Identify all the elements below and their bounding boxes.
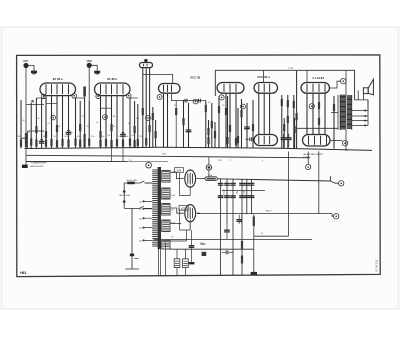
svg-text:5k: 5k [223, 105, 225, 107]
svg-text:TONABNEHMER: TONABNEHMER [31, 162, 48, 165]
tube V7 ECC82 lower envelope [254, 135, 278, 146]
tube V5 label ECC 82 a [258, 75, 271, 79]
svg-text:2n: 2n [96, 122, 98, 124]
driver stage wire with resistor at x=238 [237, 108, 239, 148]
rectifier interconnect [170, 173, 190, 241]
pilot lamp [146, 162, 152, 168]
rail label [266, 211, 272, 213]
svg-text:8-704 129: 8-704 129 [375, 259, 379, 271]
transformer secondary taps [352, 100, 368, 127]
tube V2 label EF 86 b [107, 77, 117, 81]
svg-text:EF 86 a: EF 86 a [53, 77, 63, 81]
svg-text:ECC 83: ECC 83 [190, 76, 200, 80]
output stage wire with resistor at x=284 [283, 118, 285, 149]
transformer area bus [154, 239, 312, 241]
V3 anode wire network [172, 93, 206, 102]
bias components [236, 215, 242, 224]
screen wire jog [36, 97, 46, 99]
detector diode top terminal [144, 59, 147, 62]
wire pickup terminal down [88, 68, 90, 101]
interstage pins V5 to V7 [259, 93, 270, 134]
mains switch label [119, 195, 131, 197]
wire with resistor+resistor at x=36 [35, 98, 37, 148]
output stage wire with resistor+resistor at x=288 [287, 95, 289, 149]
driver stage wire with resistor+resistor at x=208 [207, 120, 209, 148]
output stage wire with resistor at x=334 [333, 96, 335, 149]
tube V4 first half ECC82 envelope [217, 83, 244, 94]
svg-text:220: 220 [139, 228, 142, 230]
driver stage wire with resistor at x=228 [226, 96, 228, 148]
driver stage wire with resistor at x=206 [205, 101, 207, 148]
tube V1 EF86 envelope [40, 83, 76, 96]
detector pin wires down [143, 68, 150, 148]
svg-text:2 x EL84: 2 x EL84 [313, 76, 325, 80]
title H61 [20, 271, 26, 275]
wire with capacitor+resistor at x=123 [120, 96, 126, 149]
lower rail link [254, 235, 289, 237]
mains drop to ground [125, 208, 139, 269]
svg-text:ECC 82 a: ECC 82 a [258, 75, 271, 79]
cathode resistor column [251, 214, 257, 274]
component value labels [18, 102, 225, 138]
tube V1 label EF 86 a [53, 77, 63, 81]
detector aux column 2 [155, 120, 157, 148]
bias cap 2 [224, 224, 230, 239]
wire with resistor+resistor at x=135 [134, 101, 136, 148]
wire with resistor at x=31 [30, 103, 32, 148]
winding bottom wire [170, 248, 254, 250]
speaker leads [355, 90, 368, 110]
wire to output terminal T5 [330, 181, 344, 186]
wire with resistor+resistor at x=100 [99, 96, 101, 149]
wire with resistor at x=130 [129, 98, 131, 148]
wire with resistor+resistor at x=26 [25, 133, 27, 147]
svg-text:350V: 350V [244, 189, 246, 194]
chassis bus C [26, 161, 168, 163]
wire to output terminal T4 [306, 152, 311, 170]
wire pickup terminal to pad [92, 65, 97, 70]
svg-text:125: 125 [139, 209, 142, 211]
svg-text:SICH. 0,8A: SICH. 0,8A [127, 179, 138, 182]
bus tie x111 [111, 148, 113, 162]
B+ rail from rectifier [218, 176, 331, 181]
driver stage wire with resistor at x=226 [225, 93, 227, 148]
rectifier V10 cathode lead [189, 220, 195, 265]
svg-text:100k: 100k [43, 136, 47, 138]
rectifier V10 wires [170, 208, 200, 213]
svg-text:10k: 10k [87, 126, 90, 128]
wire antenna terminal to pad [29, 66, 34, 71]
svg-text:NETZSCHR.: NETZSCHR. [119, 195, 131, 197]
wire with resistor at x=138 [137, 104, 139, 148]
wire with resistor+resistor at x=46 [45, 96, 47, 149]
pickup input terminal [87, 63, 92, 68]
mid circled pin B [103, 115, 108, 120]
bus labels [129, 153, 264, 162]
secondary winding labels [171, 172, 176, 239]
wire with resistor+resistor at x=57 [56, 96, 58, 149]
svg-text:-7V: -7V [260, 233, 264, 235]
driver stage wire with resistor at x=242 [240, 99, 242, 148]
wire with resistor at x=52 [50, 96, 52, 149]
svg-text:240: 240 [139, 241, 142, 243]
rail label 2 [260, 233, 264, 235]
svg-text:285 V: 285 V [266, 211, 272, 213]
svg-text:1M: 1M [18, 136, 21, 138]
svg-text:H61: H61 [20, 271, 26, 275]
schematic border frame [17, 55, 381, 277]
wire with resistor at x=106 [105, 96, 107, 149]
svg-text:UKW: UKW [86, 61, 92, 63]
output terminal upper [330, 79, 346, 89]
output tubes label 2 x EL84 [313, 76, 325, 80]
pin circle V2 right [127, 94, 132, 99]
output stage wire with resistor at x=297 [296, 71, 298, 149]
driver stage wire with resistor at x=215 [214, 122, 216, 148]
wire with resistor+resistor at x=112 [110, 96, 112, 149]
svg-text:6,3V: 6,3V [162, 153, 167, 155]
output stage wire with resistor at x=282 [281, 95, 283, 149]
B+ top bus [215, 70, 354, 100]
svg-text:ANSCHLUSS: ANSCHLUSS [31, 165, 44, 168]
wire with resistor at x=62 [61, 96, 63, 149]
drop bus to ECC82a anode [263, 70, 265, 82]
chassis bus B [26, 155, 310, 158]
svg-text:2k: 2k [59, 126, 61, 128]
bus tie x123 [122, 148, 124, 162]
svg-text:3k: 3k [38, 118, 40, 120]
bottom mid label 50m [201, 244, 206, 256]
pin circle V1 left [42, 94, 47, 99]
mid circled pin E [241, 104, 246, 109]
svg-text:5n: 5n [71, 132, 73, 134]
cap bank label [200, 243, 205, 246]
power transformer core and primary [139, 167, 161, 249]
drawing number (vertical, right margin) [375, 259, 379, 271]
svg-text:5U4: 5U4 [177, 169, 182, 172]
svg-text:150: 150 [139, 218, 142, 220]
rectifier V9 [185, 170, 196, 187]
svg-text:ANT: ANT [23, 60, 28, 63]
svg-text:8n: 8n [113, 126, 115, 128]
antenna terminal label [23, 60, 28, 63]
detector leg resistor 2 [149, 125, 151, 132]
svg-text:6 WATT: 6 WATT [303, 156, 311, 159]
mains fuse [127, 182, 135, 185]
pin circle V2 left [96, 94, 101, 99]
wire with resistor at x=117 [116, 96, 118, 149]
tube V5 envelope [254, 83, 278, 94]
detector leg resistor 1 [142, 108, 144, 115]
wire with resistor at x=76 [74, 98, 76, 148]
filter cap labels [224, 189, 246, 195]
chassis ground blob [22, 165, 28, 168]
pickup terminal label [86, 61, 92, 63]
speaker cone [368, 79, 373, 95]
wire with resistor at x=21 [20, 100, 22, 148]
detector leg resistor 3 [145, 138, 147, 145]
pin circle V1 right [72, 94, 77, 99]
interstage pins V6 to V8 [307, 93, 325, 134]
pin circle V3 [157, 95, 162, 100]
driver stage wire with capacitor at x=247 [244, 103, 250, 148]
tube V3 label ECC 83 [190, 76, 200, 80]
jog 3 [76, 97, 85, 99]
rectifier V9 label box [175, 168, 184, 173]
transformer secondary windings [162, 171, 170, 250]
jog 4 [130, 97, 138, 99]
mains left wire [123, 183, 126, 208]
screen resistor between V1 V2 [83, 87, 86, 102]
rectifier V10 label box [179, 206, 188, 211]
svg-text:110: 110 [139, 202, 142, 204]
wire to output terminal T6 [319, 151, 339, 219]
mains fuse label [127, 179, 138, 182]
tube V2 EF86 envelope [95, 83, 131, 96]
output stage text [303, 153, 324, 159]
driver stage wire with resistor at x=230 [229, 93, 231, 148]
pickup coupling pad [94, 71, 100, 74]
driver stage wire with resistor at x=212 [211, 103, 213, 148]
detector output wire [143, 75, 173, 84]
left margin text [31, 162, 48, 168]
jog 2b [46, 102, 57, 104]
transformer bottom lead [345, 130, 347, 151]
antenna input terminal [23, 63, 28, 68]
svg-text:1k: 1k [102, 136, 104, 138]
transformer primary top lead [345, 71, 347, 95]
bias rail [197, 213, 332, 215]
mains wire lower [124, 206, 152, 208]
svg-text:50k: 50k [125, 136, 128, 138]
mid circled pin D [193, 99, 198, 104]
label above B+ bus [288, 68, 294, 70]
svg-text:EF 86 b: EF 86 b [107, 77, 117, 81]
transformer left lead [297, 95, 338, 130]
right vertical feed [288, 152, 290, 237]
driver stage wire with resistor at x=253 [252, 100, 254, 148]
svg-text:1718: 1718 [288, 68, 294, 70]
wire with resistor at x=89 [88, 101, 90, 148]
wire antenna terminal down [25, 68, 27, 165]
pin circle V6 [309, 104, 314, 109]
tube V8 EL84 lower envelope [303, 135, 331, 147]
jog 2c [101, 107, 112, 109]
driver stage wire with resistor at x=184 [182, 100, 184, 148]
speaker driver box [363, 88, 368, 94]
rectifier V9 wires [170, 172, 205, 178]
pin circle V4 [219, 95, 224, 100]
hum pot boxes [174, 249, 188, 275]
detector diode envelope [140, 63, 153, 68]
svg-text:1M: 1M [113, 116, 116, 118]
driver stage wire with capacitor at x=188 [186, 103, 192, 148]
svg-text:2M: 2M [140, 136, 143, 138]
HT fuse [205, 177, 217, 181]
output stage wire with resistor at x=294 [293, 95, 295, 149]
detector aux column [152, 107, 154, 148]
V3 pin wires [164, 93, 168, 148]
V3 grid resistor [175, 101, 177, 148]
wire with capacitor at x=42 [39, 98, 45, 148]
rectifier V10 [185, 205, 196, 222]
svg-text:GEGENTAKT-VERST: GEGENTAKT-VERST [303, 153, 324, 156]
mid circled pin C [146, 116, 151, 121]
transformer legs to ground [158, 243, 165, 276]
svg-text:0,5M: 0,5M [77, 136, 82, 138]
wire with resistor+resistor at x=85 [84, 98, 86, 148]
driver stage wire with resistor at x=219 [218, 96, 220, 148]
second rail [222, 190, 265, 192]
filter capacitor bank [218, 179, 255, 275]
fuse feed from bus [206, 157, 212, 177]
grid wire jog 1 [26, 101, 44, 105]
output transformer winding block [340, 95, 352, 130]
tube V3 triode envelope [159, 84, 181, 94]
output stage wire with resistor at x=295 [294, 118, 296, 149]
driver stage wire with resistor at x=236 [235, 93, 237, 148]
wire with resistor+resistor at x=80 [79, 101, 81, 148]
svg-text:50+50: 50+50 [224, 189, 226, 194]
svg-text:50m: 50m [201, 244, 206, 246]
wire with capacitor+resistor at x=68 [66, 96, 72, 149]
left box wiring [21, 131, 44, 148]
mid circled pin A [51, 115, 56, 120]
antenna coupling pad [31, 71, 37, 74]
phase splitter caps [281, 134, 292, 148]
output terminal lower [330, 141, 348, 146]
chassis bus A [25, 147, 373, 150]
tube V6 EL84 upper envelope [301, 83, 330, 94]
mains wire upper [124, 181, 152, 183]
coupling cap to V7 grid [246, 137, 255, 141]
drop bus to EL84 anode [306, 70, 308, 82]
